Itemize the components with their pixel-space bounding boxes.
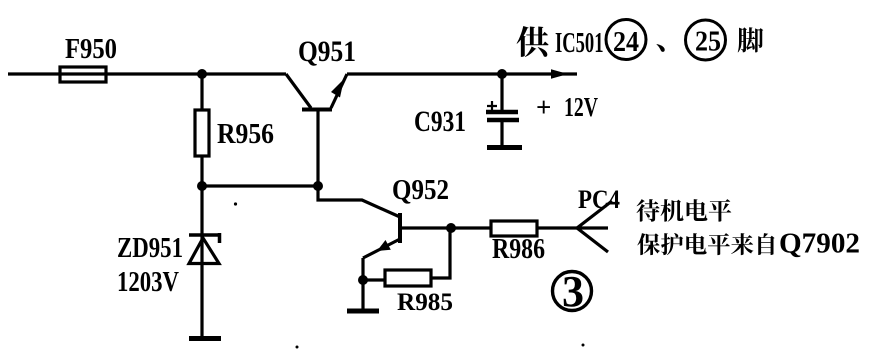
speck: [296, 346, 299, 349]
wire: node to Q951 base node: [202, 184, 318, 187]
capacitor C931 polarity plus: [487, 101, 497, 111]
svg-text:24: 24: [613, 27, 639, 58]
label: 供 IC501: [517, 26, 549, 57]
wire: R985 right up to base node: [431, 228, 450, 278]
svg-text:IC501: IC501: [555, 27, 604, 59]
label: 待机电平: [637, 199, 732, 222]
ground (ZD951): [189, 336, 221, 341]
svg-text:Q7902: Q7902: [779, 228, 860, 260]
speck: [582, 344, 585, 347]
pin circle 24: [606, 20, 646, 60]
wire: Q951 base down and over to Q952 collector: [318, 110, 400, 217]
transistor Q951 emitter lead: [331, 74, 347, 108]
transistor Q952 base bar: [398, 213, 402, 243]
wire: junction down to R956: [200, 74, 203, 110]
node: junction dot base/R985: [446, 223, 456, 233]
speck: [234, 202, 237, 205]
transistor Q952 base lead to R986: [400, 226, 491, 229]
pin circle 25: [686, 20, 726, 60]
ground (Q952 emitter): [347, 309, 379, 314]
node: junction dot C931: [497, 69, 507, 79]
zener diode ZD951 cathode bar: [189, 233, 220, 243]
transistor Q952 emitter arrow: [377, 240, 391, 251]
transistor Q951 emitter arrow: [331, 79, 344, 98]
resistor R986: [491, 221, 537, 236]
svg-text:R956: R956: [217, 119, 274, 150]
svg-text:25: 25: [695, 27, 721, 58]
svg-text:PC4: PC4: [578, 185, 620, 214]
wire: R956 to zener node: [200, 156, 203, 341]
wire: Q951 emitter to output arrow: [347, 72, 577, 75]
zener diode ZD951 triangle: [189, 238, 219, 264]
connector PC4: [577, 201, 612, 252]
wire: left input to Q951 collector: [8, 72, 286, 75]
output arrowhead: [551, 69, 568, 78]
node: junction dot at F950/R956: [197, 69, 207, 79]
wire: C931 to ground: [500, 122, 503, 148]
resistor R956: [195, 110, 209, 156]
wire: node to R985 left: [363, 278, 385, 281]
svg-text:R985: R985: [397, 289, 453, 316]
svg-text:F950: F950: [65, 34, 117, 65]
capacitor C931 plates: [486, 110, 518, 115]
label circle 3: [553, 272, 592, 311]
resistor R985: [385, 270, 431, 286]
label: 保护电平来自 Q7902: [637, 233, 774, 255]
wire: R986 to PC4 connector: [537, 226, 577, 229]
svg-text:Q951: Q951: [298, 35, 356, 68]
svg-text:1203V: 1203V: [117, 267, 179, 298]
node: junction dot R956/ZD951: [197, 181, 207, 191]
label: 、 between circles: [656, 44, 664, 52]
svg-text:12V: 12V: [564, 92, 598, 122]
ground (C931): [487, 145, 522, 150]
node: junction dot at Q951 base line: [313, 181, 323, 191]
svg-text:ZD951: ZD951: [117, 233, 183, 264]
svg-text:+: +: [536, 92, 551, 122]
wire: emitter down to R985 node: [361, 258, 364, 311]
node: junction dot emitter/R985: [358, 275, 368, 285]
svg-text:R986: R986: [492, 234, 545, 265]
svg-text:Q952: Q952: [392, 174, 449, 206]
fuse F950: [60, 67, 106, 82]
transistor Q951 collector lead: [286, 74, 311, 108]
svg-text:3: 3: [562, 267, 584, 316]
transistor Q951 base bar: [302, 108, 332, 112]
transistor Q952 emitter lead: [363, 239, 400, 258]
svg-text:C931: C931: [414, 105, 466, 138]
label: 脚: [738, 27, 764, 52]
wire: junction to C931 top plate: [500, 74, 503, 111]
